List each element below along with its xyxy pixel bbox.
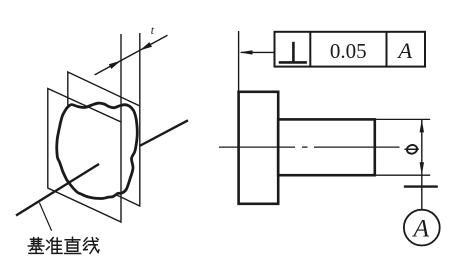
leader line from frame <box>241 51 275 53</box>
extension line of front plane <box>120 34 122 122</box>
dim arrow up <box>420 119 424 132</box>
shaft rectangle <box>278 119 375 175</box>
datum stem <box>421 187 423 210</box>
datum circle <box>404 210 440 246</box>
tolerance zone back plane <box>68 72 140 206</box>
extension line above flange <box>238 31 240 92</box>
phi symbol rotated <box>405 144 419 155</box>
datum bar <box>404 185 438 187</box>
leader arrowhead <box>239 50 252 54</box>
tolerance zone front plane <box>48 89 121 223</box>
dimension line t <box>95 35 168 75</box>
leader line to label <box>39 203 51 231</box>
dim arrow down <box>420 162 424 175</box>
svg-text:t: t <box>151 25 155 37</box>
dimension line phi <box>421 119 423 186</box>
svg-text:0.05: 0.05 <box>330 39 367 63</box>
flange rectangle <box>239 92 279 204</box>
char 准 <box>46 238 62 254</box>
perpendicularity symbol <box>279 42 307 63</box>
centerline <box>219 146 400 148</box>
actual surface blob <box>57 103 138 198</box>
extension line bottom <box>375 174 430 176</box>
svg-text:A: A <box>412 214 430 243</box>
arrowhead right <box>140 42 152 50</box>
label 基准直线 drawn as strokes <box>28 237 99 253</box>
char 线 <box>84 238 99 254</box>
datum line thick left segment <box>16 164 99 216</box>
char 直 <box>65 237 81 253</box>
extension line top <box>375 118 430 120</box>
svg-text:A: A <box>396 38 412 63</box>
extension line of back plane <box>139 33 141 106</box>
char 基 <box>28 238 44 254</box>
arrowhead left <box>109 61 121 69</box>
datum line thick right segment <box>140 120 189 146</box>
feature control frame <box>275 32 426 67</box>
